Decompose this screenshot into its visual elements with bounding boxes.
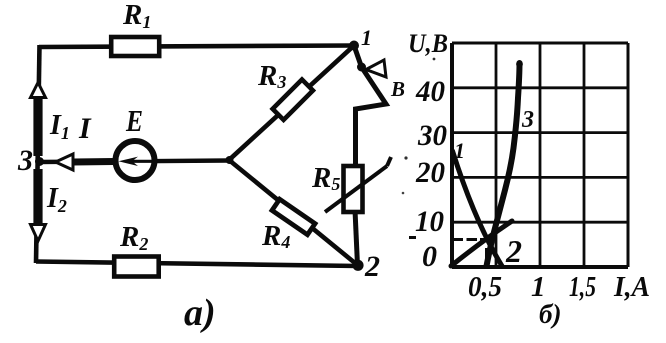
svg-text:I: I xyxy=(78,112,92,145)
svg-text:20: 20 xyxy=(415,156,445,189)
svg-text:2: 2 xyxy=(364,250,380,283)
svg-text:1,5: 1,5 xyxy=(569,271,596,303)
svg-text:10: 10 xyxy=(415,205,444,238)
svg-text:1: 1 xyxy=(531,271,546,303)
svg-text:2: 2 xyxy=(505,233,522,269)
svg-text:U,В: U,В xyxy=(408,29,448,58)
svg-text:0: 0 xyxy=(422,240,437,273)
svg-text:1: 1 xyxy=(454,138,465,163)
svg-text:1: 1 xyxy=(361,25,372,50)
svg-text:3: 3 xyxy=(521,107,534,133)
svg-text:I,А: I,А xyxy=(613,271,650,303)
svg-text:30: 30 xyxy=(417,119,447,152)
svg-text:а): а) xyxy=(184,292,216,334)
svg-text:3: 3 xyxy=(17,144,33,177)
svg-text:40: 40 xyxy=(415,75,445,108)
svg-text:б): б) xyxy=(539,299,561,329)
svg-text:В: В xyxy=(390,77,405,101)
svg-text:E: E xyxy=(125,103,143,138)
svg-text:0,5: 0,5 xyxy=(468,271,502,303)
